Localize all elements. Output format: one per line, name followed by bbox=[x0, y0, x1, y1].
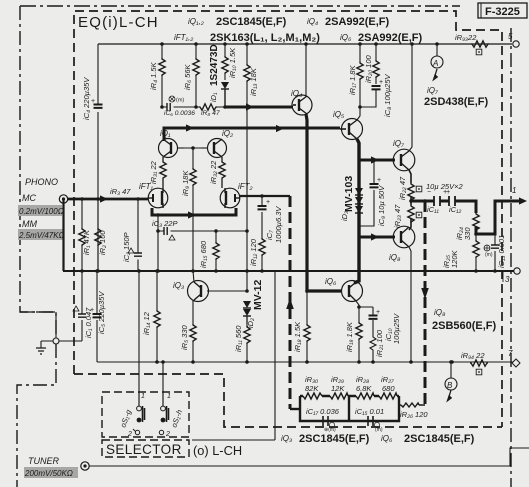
capacitor iC6 0.0036 bbox=[162, 96, 196, 117]
resistor iR27 680 bbox=[379, 375, 397, 399]
wire Q7 collector to rail bbox=[409, 44, 412, 151]
resistor iR11 560 bbox=[234, 324, 250, 362]
transistor FT2 bbox=[220, 182, 252, 208]
transistor Q7 bbox=[393, 139, 415, 171]
capacitor iC9 10u50V bbox=[359, 160, 386, 226]
chain border top bbox=[20, 5, 460, 7]
node open circle bbox=[53, 338, 59, 344]
resistor iR13 18K bbox=[244, 44, 258, 291]
wire selector return riser bbox=[192, 271, 275, 440]
test point un mark bbox=[484, 245, 493, 258]
wire thick Q8 base branch bbox=[359, 236, 395, 239]
selector switch S1-g bbox=[118, 392, 145, 438]
terminal 5 bbox=[508, 32, 519, 47]
wire input line bbox=[68, 198, 148, 201]
transistor Q3 bbox=[173, 281, 247, 302]
resistor iR23 47 bbox=[393, 204, 422, 228]
mid lower rail bbox=[97, 361, 514, 363]
transistor Q5 bbox=[333, 110, 363, 140]
selector switches dashed box bbox=[102, 392, 189, 437]
capacitor iC8 100u25V bbox=[360, 74, 392, 117]
wire Q6 emitter node bbox=[356, 301, 373, 307]
wire tuner line bbox=[89, 448, 529, 466]
transistor Q1 bbox=[159, 129, 185, 158]
wire thick dashed feedback riser bbox=[289, 196, 292, 409]
wire output emitter column bbox=[409, 170, 411, 230]
capacitor iC11 bbox=[427, 189, 447, 214]
wire thick FET source coupling bbox=[152, 208, 236, 215]
ground bbox=[36, 341, 46, 354]
terminal 7 bbox=[508, 349, 520, 367]
diode iD2 MV-12 bbox=[243, 279, 264, 328]
resistor iR6 56K bbox=[183, 44, 199, 107]
wire iC4 column bbox=[97, 44, 99, 271]
resistor iR25 120K bbox=[442, 234, 479, 271]
chain border right bbox=[510, 28, 512, 487]
resistor iR17 1.8K bbox=[348, 44, 363, 107]
resistor iR19 1.8K bbox=[345, 307, 362, 362]
resistor iR5 330 bbox=[180, 300, 196, 362]
wire iC3 node line bbox=[158, 230, 247, 232]
resistor iR29 12K bbox=[330, 375, 348, 399]
wire thick output line bbox=[411, 201, 524, 234]
selector switch S1-h bbox=[159, 392, 184, 438]
wire thick Q5 emitter chain bbox=[354, 139, 359, 283]
resistor iR26 120 bbox=[399, 403, 428, 419]
wire thick dashed output feedback drop bbox=[424, 201, 427, 405]
resistor iR14 12 bbox=[142, 271, 160, 362]
resistor iR12 120 bbox=[249, 238, 265, 271]
transistor Q4 bbox=[291, 89, 312, 115]
capacitor iC4 220u35V bbox=[82, 77, 103, 120]
wire Q1 Q2 base link bbox=[184, 147, 201, 149]
capacitor iC5 220u35V bbox=[90, 271, 106, 362]
chain border left upper bbox=[20, 6, 56, 340]
wire thick Q1 collector to Q5 base bbox=[164, 128, 340, 141]
terminal 3 bbox=[503, 268, 520, 284]
wire input drop to ground rail bbox=[62, 199, 64, 271]
wire selector feeds bbox=[139, 271, 163, 406]
resistor iR31 22 bbox=[149, 157, 166, 188]
resistor iR4 1.5K bbox=[149, 44, 165, 107]
resistor iR2 100 bbox=[95, 199, 107, 271]
wire thick Q4 to Q6 base bbox=[306, 114, 342, 291]
transistor FT1 bbox=[139, 182, 168, 208]
tuner input terminal bbox=[81, 462, 89, 470]
wire feedback node to FT2 gate bbox=[240, 195, 290, 197]
transistor Q6 bbox=[325, 277, 363, 302]
resistor iR18 1.5K bbox=[293, 291, 310, 362]
wire Q5 collector bbox=[357, 107, 360, 120]
capacitor iC3 22P bbox=[152, 219, 178, 240]
resistor iR24 330 bbox=[455, 213, 479, 240]
resistor iR93 22 bbox=[455, 33, 512, 55]
top supply rail bbox=[98, 43, 512, 45]
resistor iR1 47K bbox=[79, 199, 91, 271]
wire Q4 collector to rail bbox=[305, 44, 307, 96]
resistor iR30 82K bbox=[303, 375, 322, 399]
chain border left lower bbox=[17, 344, 56, 487]
resistor iR9 18K bbox=[181, 148, 196, 271]
wire Q3 collector to rail bbox=[193, 271, 194, 282]
capacitor iC17 0.036 bbox=[306, 407, 340, 433]
resistor iR20 100 bbox=[364, 44, 379, 84]
wire thick iD1 node to Q4 base bbox=[225, 106, 293, 109]
resistor iR10 1.5K bbox=[222, 44, 237, 80]
wire FT1 source to ground bbox=[157, 215, 159, 271]
resistor iR8 47 bbox=[196, 104, 225, 117]
capacitor iC2 150P bbox=[122, 199, 142, 271]
meter A bbox=[431, 42, 443, 81]
resistor iR94 22 bbox=[461, 351, 488, 375]
capacitor iC15 0.01 bbox=[355, 407, 384, 433]
wire thick Q7 base branch bbox=[359, 159, 395, 162]
transistor Q2 bbox=[201, 129, 233, 158]
capacitor iC12 bbox=[446, 189, 461, 214]
resistor iR22 47 bbox=[398, 176, 422, 201]
capacitor iC13 0.001 bbox=[491, 234, 506, 271]
phono input terminal bbox=[59, 195, 67, 203]
capacitor iC1 0.047 bbox=[73, 271, 93, 341]
diode iD1 IS2473D bbox=[209, 44, 229, 107]
EQ block dashed border bbox=[74, 11, 502, 374]
diode iD3 MV-103 bbox=[340, 176, 363, 221]
resistor iR15 680 bbox=[199, 231, 219, 271]
capacitor iC10 100u25V + resistor iR21 100 bbox=[369, 307, 402, 362]
F-3225 frame box bbox=[478, 3, 527, 18]
meter B bbox=[445, 360, 457, 402]
resistor iR28 6.8K bbox=[356, 375, 374, 399]
rail junction dots bbox=[160, 42, 164, 46]
node input junctions bbox=[80, 197, 84, 201]
ground node line bbox=[41, 312, 82, 341]
bottom ground rail bbox=[63, 270, 516, 272]
transistor Q8 bbox=[389, 226, 415, 262]
capacitor iC7 1000u6.3V bbox=[258, 196, 284, 243]
resistor iR32 22 bbox=[209, 157, 225, 188]
SELECTOR text and box bbox=[102, 440, 189, 457]
RIAA feedback network box bbox=[290, 396, 399, 421]
wire Q8 collector to mid rail bbox=[409, 247, 411, 362]
